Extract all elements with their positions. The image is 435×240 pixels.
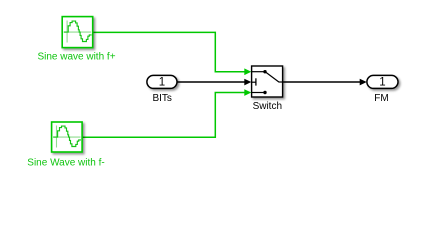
svg-text:Sine wave with f+: Sine wave with f+ xyxy=(37,52,115,63)
switch internal: input 3 stub + dot xyxy=(252,92,264,94)
switch internal: input 2 control marker xyxy=(252,81,256,83)
wire: Sine Wave f- output to Switch input 3 xyxy=(82,93,245,138)
sine wave icon xyxy=(64,21,91,43)
wire: BITs inport to Switch input 2 xyxy=(177,81,245,83)
sine wave icon xyxy=(54,126,81,148)
switch internal: input 1 stub + dot xyxy=(252,71,264,73)
arrowhead at Switch input 2 (black) xyxy=(244,79,251,86)
svg-text:FM: FM xyxy=(374,93,388,104)
svg-text:1: 1 xyxy=(159,76,165,88)
wire: Sine wave f+ output to Switch input 1 xyxy=(93,32,245,71)
arrowhead at Switch input 3 (green) xyxy=(244,89,251,96)
wire: Switch output to FM outport xyxy=(283,81,360,83)
block: Sine Wave with f- (Sine Wave source) xyxy=(52,122,83,152)
svg-text:BITs: BITs xyxy=(152,93,171,104)
svg-text:Switch: Switch xyxy=(253,101,282,112)
arrowhead at Switch input 1 (green) xyxy=(244,68,251,75)
block: Switch xyxy=(252,66,283,97)
inport 1: BITs xyxy=(147,75,177,88)
arrowhead at FM outport (black) xyxy=(360,79,367,86)
svg-text:Sine Wave with f-: Sine Wave with f- xyxy=(27,158,104,169)
switch internal: arm diagonal xyxy=(266,72,279,82)
block: Sine Wave with f+ (Sine Wave source) xyxy=(62,17,92,48)
svg-text:1: 1 xyxy=(379,76,385,88)
outport 1: FM xyxy=(367,75,398,88)
switch internal: output line xyxy=(279,81,283,83)
